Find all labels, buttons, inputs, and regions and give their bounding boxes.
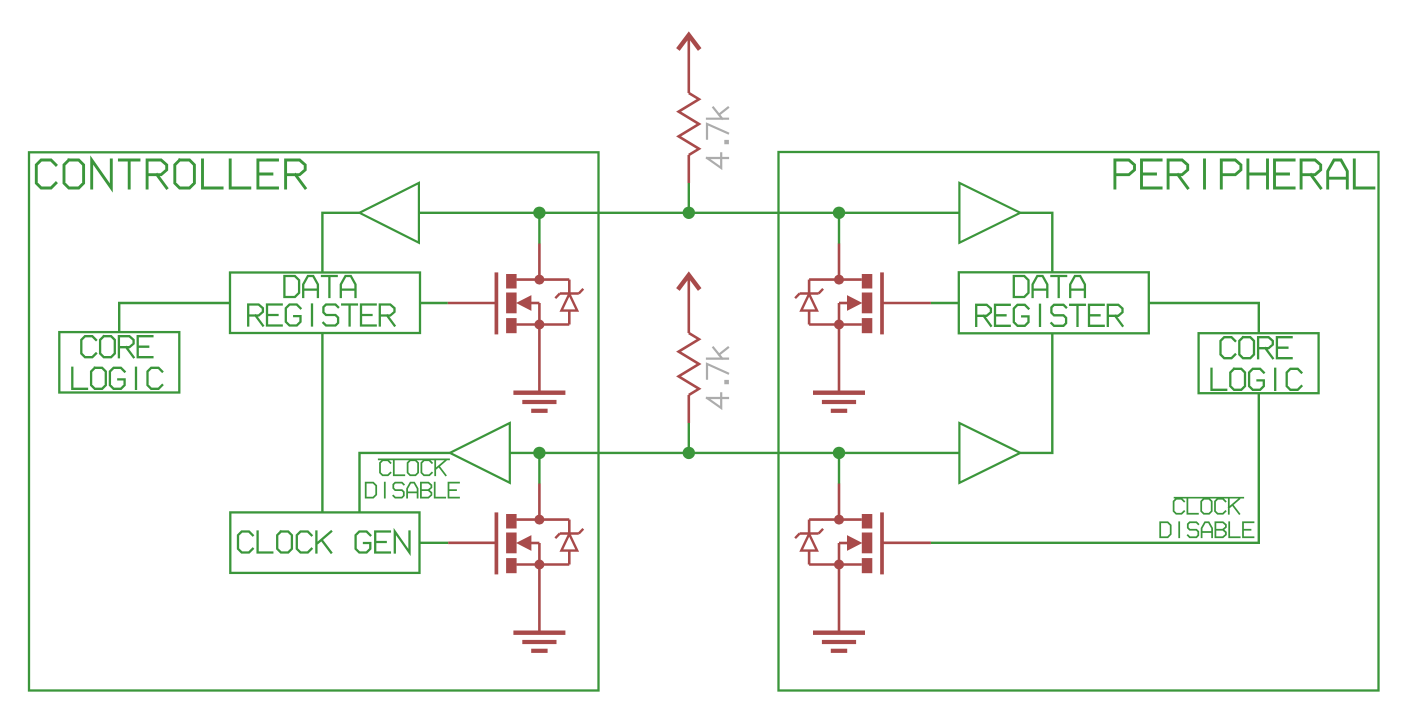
wire Q3 gate to DATA REGISTER left (green stub) (931, 302, 959, 304)
wire U2 output to CLOCK GEN top (360, 453, 450, 513)
value label 4.7k (R2) (707, 348, 728, 408)
wire Q2 gate pin (448, 541, 496, 544)
junction SCL bus / Q2 drain (533, 447, 545, 459)
junction Q3 drain / diode (834, 275, 844, 285)
label REGISTER (peripheral) (976, 305, 1122, 326)
value label 4.7k (R1) (707, 108, 728, 168)
buffer U2 (controller SCL input, points left) (450, 423, 510, 483)
junction Q3 source / diode (834, 320, 844, 330)
net label CLOCK (controller) (380, 460, 446, 475)
junction SDA bus / R1 (683, 207, 695, 219)
ground (Q4 source) (813, 631, 865, 653)
ground (Q3 source) (813, 391, 865, 413)
box CORE LOGIC (controller) (59, 332, 179, 392)
resistor R2 body (zigzag) (679, 333, 699, 395)
wire Q4 gate pin (882, 541, 931, 544)
transistor Q4 (open-drain MOSFET) (809, 484, 882, 632)
transistor Q1 (open-drain MOSFET) (496, 244, 569, 392)
net label DISABLE (controller) (366, 483, 459, 498)
wire SCL bus (row 2) (510, 452, 960, 454)
wire SCL bus to Q2 drain (538, 453, 540, 484)
junction Q1 drain / diode (534, 275, 544, 285)
power arrow VCC (R2) (678, 275, 700, 333)
net label CLOCK DISABLE (controller) overline (378, 458, 450, 460)
label CLOCK GEN (238, 532, 410, 553)
buffer U1 (controller SDA input, points left) (360, 183, 419, 243)
label DATA (controller) (284, 276, 355, 297)
block outline CONTROLLER (29, 152, 599, 690)
junction Q2 drain / diode (534, 515, 544, 525)
wire DATA REGISTER right to Q1 gate (green stub) (420, 302, 448, 304)
label CORE (controller) (81, 336, 152, 357)
wire SDA bus to Q1 drain (538, 213, 540, 244)
wire U1 output to DATA REGISTER top (322, 213, 359, 273)
wire CORE LOGIC bottom to Q4 gate (peripheral) (931, 393, 1259, 543)
box DATA REGISTER (controller) (230, 273, 420, 334)
buffer U4 (peripheral SCL input, points right) (959, 423, 1020, 483)
body diode D3 (795, 280, 823, 325)
net label CLOCK (peripheral) (1174, 499, 1240, 514)
box DATA REGISTER (peripheral) (959, 272, 1149, 333)
wire SCL bus to Q4 drain (838, 453, 840, 484)
label LOGIC (peripheral) (1212, 369, 1302, 390)
net label CLOCK DISABLE (peripheral) overline (1174, 497, 1244, 499)
resistor R1 bottom pin (687, 155, 690, 183)
box CLOCK GEN (controller) (230, 512, 419, 573)
transistor Q2 (open-drain MOSFET) (496, 484, 569, 632)
junction Q1 source / diode (534, 320, 544, 330)
junction Q4 source / diode (834, 560, 844, 570)
wire DATA REGISTER right to CORE LOGIC top (peripheral) (1149, 303, 1259, 333)
label CONTROLLER (36, 160, 305, 188)
resistor R2 bottom pin (687, 395, 690, 423)
label LOGIC (controller) (72, 368, 162, 389)
block outline PERIPHERAL (779, 152, 1379, 691)
box CORE LOGIC (peripheral) (1199, 333, 1319, 393)
label DATA (peripheral) (1014, 276, 1085, 297)
body diode D4 (795, 520, 823, 565)
wire SDA bus to Q3 drain (838, 213, 840, 244)
wire U3 output to DATA REGISTER top (peripheral) (1020, 213, 1052, 272)
body diode D2 (555, 520, 583, 565)
net label DISABLE (peripheral) (1160, 522, 1253, 537)
wire Q1 gate pin (448, 302, 497, 305)
junction SDA bus / Q1 drain (533, 207, 545, 219)
wire SDA bus (row 1) (419, 212, 960, 214)
junction Q4 drain / diode (834, 515, 844, 525)
wire R1 to SDA bus (688, 183, 690, 213)
wire Q3 gate pin (882, 302, 931, 305)
wire CLOCK GEN right to Q2 gate (green stub) (420, 542, 449, 544)
label PERIPHERAL (1115, 160, 1374, 188)
wire U4 output to DATA REGISTER bottom (peripheral) (1020, 333, 1052, 453)
wire DATA REGISTER left to CORE LOGIC top (controller) (119, 303, 230, 332)
body diode D1 (555, 280, 583, 325)
label CORE (peripheral) (1221, 337, 1292, 358)
junction SDA bus / Q3 drain (833, 207, 845, 219)
transistor Q3 (open-drain MOSFET) (809, 244, 882, 392)
junction SCL bus / Q4 drain (833, 447, 845, 459)
resistor R1 body (zigzag) (679, 93, 699, 155)
junction Q2 source / diode (534, 560, 544, 570)
buffer U3 (peripheral SDA input, points right) (959, 183, 1020, 243)
power arrow VCC (R1) (678, 35, 700, 93)
ground (Q1 source) (513, 391, 565, 413)
label REGISTER (controller) (248, 305, 394, 326)
ground (Q2 source) (513, 631, 565, 653)
wire DATA REGISTER bottom to CLOCK GEN top (321, 333, 323, 512)
wire R2 to SCL bus (688, 423, 690, 453)
junction SCL bus / R2 (683, 447, 695, 459)
